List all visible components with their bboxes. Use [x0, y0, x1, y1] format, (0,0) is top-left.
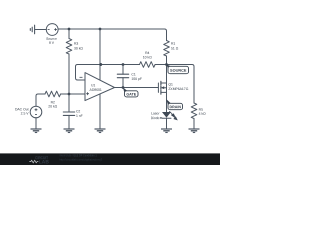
footer bar — [0, 153, 220, 165]
svg-text:Laser: Laser — [151, 112, 160, 116]
wire op-amp V- to ground — [99, 94, 101, 128]
wire R2 to plus input — [61, 93, 85, 95]
op-amp input signs — [80, 77, 90, 95]
wire laser diode to ground — [166, 118, 168, 128]
ground (op-amp V-) — [95, 129, 106, 133]
svg-text:Diode: Diode — [151, 116, 160, 120]
svg-text:R1: R1 — [171, 42, 175, 46]
voltage source V1 — [46, 24, 58, 36]
flag DRAIN — [166, 99, 171, 106]
svg-text:DRAIN: DRAIN — [170, 105, 182, 109]
svg-text:AD8601: AD8601 — [90, 88, 102, 92]
flag GATE — [123, 87, 128, 93]
svg-text:http://circuitlab.com/c/qpkabr: http://circuitlab.com/c/qpkabrwkrrvj3 — [59, 158, 102, 162]
wire op-amp output to gate — [115, 87, 159, 89]
laser diode cathode bar — [162, 117, 171, 119]
laser diode D1 triangle — [162, 112, 171, 118]
wire R5 bottom to ground — [193, 119, 195, 129]
wire R3 bottom to plus-input node — [68, 54, 70, 94]
svg-text:LAB: LAB — [39, 159, 49, 165]
svg-text:Q1: Q1 — [168, 82, 173, 86]
svg-text:U1: U1 — [91, 83, 95, 87]
wire R1 bottom through SOURCE node to Q1 source and drain column — [166, 56, 168, 112]
svg-text:51 Ω: 51 Ω — [171, 47, 179, 51]
svg-text:4 kΩ: 4 kΩ — [199, 112, 207, 116]
junction node dots — [68, 28, 168, 96]
wire V1 left to ground — [35, 29, 46, 31]
capacitor C1 stubs and plates — [122, 65, 124, 88]
capacitor C2 stubs and plates — [68, 94, 70, 128]
svg-text:C2: C2 — [76, 109, 80, 113]
ground (rotated, at V1 minus) — [30, 25, 34, 34]
ground (laser diode) — [161, 129, 172, 133]
svg-text:ZXMP6A17G: ZXMP6A17G — [168, 87, 188, 91]
voltage source V2 DAC Out — [30, 106, 42, 118]
resistor R4 — [140, 62, 156, 68]
op-amp U1 triangle — [85, 73, 115, 101]
svg-text:SOURCE: SOURCE — [170, 69, 187, 73]
wire R3 branch upper — [68, 29, 70, 39]
resistor R5 — [191, 103, 197, 119]
svg-text:C1: C1 — [131, 73, 135, 77]
V2 polarity signs — [35, 108, 38, 114]
svg-text:1 nF: 1 nF — [76, 114, 83, 118]
laser emission arrows — [169, 111, 177, 120]
wire R4 right to SOURCE node and over to R5 branch — [155, 65, 194, 104]
ground (DAC) — [31, 129, 42, 133]
V1 polarity signs — [48, 28, 57, 31]
resistor R2 — [45, 91, 61, 97]
resistor R3 — [66, 39, 72, 55]
svg-text:2.5 V: 2.5 V — [21, 112, 30, 116]
svg-text:20 kΩ: 20 kΩ — [48, 105, 57, 109]
transistor Q1 source/drain connections — [161, 83, 167, 92]
wire op-amp V+ supply — [99, 29, 101, 80]
wire top rail 8V — [58, 29, 167, 41]
svg-text:30 kΩ: 30 kΩ — [74, 47, 83, 51]
ground (R5) — [189, 129, 200, 133]
svg-text:R3: R3 — [74, 42, 78, 46]
transistor Q1 gate bar and channel — [157, 83, 159, 92]
label pointer arrow to laser diode — [160, 117, 162, 119]
svg-text:100 pF: 100 pF — [131, 77, 142, 81]
wire DAC bottom to ground — [35, 118, 37, 129]
wire DAC column and R2 run — [36, 94, 45, 106]
Q1 body arrow — [161, 86, 164, 89]
svg-text:GATE: GATE — [126, 93, 136, 97]
svg-text:8 V: 8 V — [49, 41, 55, 45]
wire feedback: minus input up and right — [76, 65, 140, 81]
ground (C2) — [64, 129, 75, 133]
flag SOURCE — [166, 64, 171, 69]
resistor R1 — [164, 41, 170, 57]
svg-text:10 kΩ: 10 kΩ — [143, 55, 152, 59]
